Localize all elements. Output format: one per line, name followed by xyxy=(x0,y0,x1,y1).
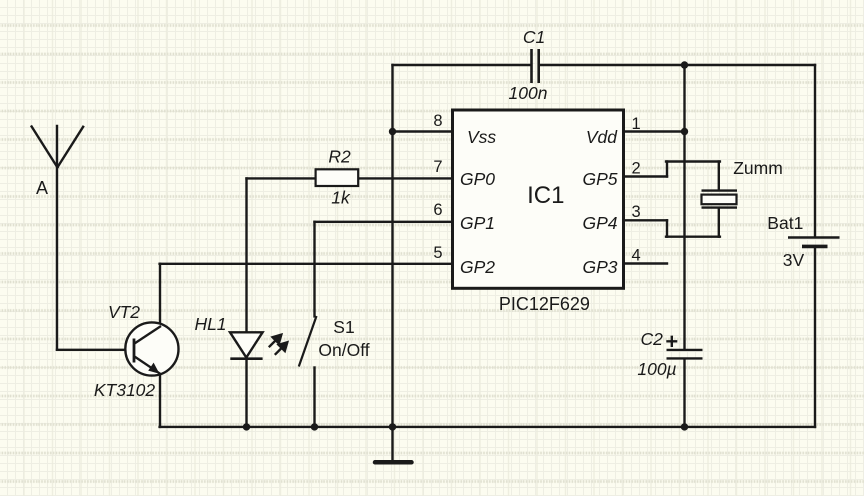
svg-text:C1: C1 xyxy=(523,27,545,47)
svg-text:GP1: GP1 xyxy=(460,213,495,233)
svg-text:6: 6 xyxy=(433,201,442,219)
svg-text:R2: R2 xyxy=(328,147,351,167)
svg-text:C2: C2 xyxy=(641,329,664,349)
svg-text:1: 1 xyxy=(632,115,641,133)
svg-text:5: 5 xyxy=(433,244,442,262)
svg-text:2: 2 xyxy=(632,160,641,178)
svg-text:PIC12F629: PIC12F629 xyxy=(499,294,590,314)
svg-text:On/Off: On/Off xyxy=(318,340,369,360)
svg-text:VT2: VT2 xyxy=(108,302,140,322)
svg-text:Vss: Vss xyxy=(467,127,496,147)
svg-text:GP0: GP0 xyxy=(460,169,495,189)
svg-text:1k: 1k xyxy=(331,188,351,208)
svg-text:3: 3 xyxy=(632,203,641,221)
svg-text:IC1: IC1 xyxy=(527,182,564,209)
svg-text:GP5: GP5 xyxy=(582,169,617,189)
svg-text:GP4: GP4 xyxy=(582,213,617,233)
svg-text:8: 8 xyxy=(433,112,442,130)
svg-text:3V: 3V xyxy=(783,250,805,270)
svg-text:Vdd: Vdd xyxy=(586,127,618,147)
svg-text:7: 7 xyxy=(433,158,442,176)
svg-text:100µ: 100µ xyxy=(637,359,676,379)
svg-text:4: 4 xyxy=(632,247,641,265)
svg-text:S1: S1 xyxy=(333,317,354,337)
svg-text:HL1: HL1 xyxy=(194,314,226,334)
svg-text:KT3102: KT3102 xyxy=(94,380,156,400)
svg-text:Bat1: Bat1 xyxy=(767,213,803,233)
svg-text:+: + xyxy=(665,329,678,354)
svg-text:GP2: GP2 xyxy=(460,257,495,277)
svg-text:A: A xyxy=(36,178,48,198)
svg-text:GP3: GP3 xyxy=(582,257,617,277)
svg-text:100n: 100n xyxy=(509,83,548,103)
svg-text:Zumm: Zumm xyxy=(733,158,783,178)
